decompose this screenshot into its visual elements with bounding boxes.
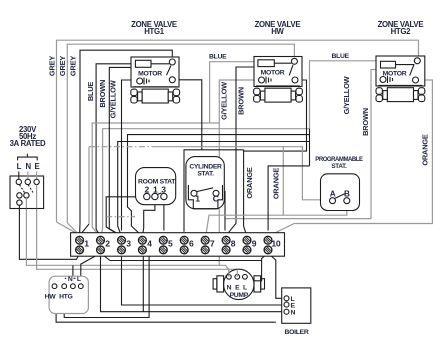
wire isolator N (grey neutral bus below strip) (26, 208, 229, 274)
svg-text:3: 3 (161, 185, 166, 195)
svg-text:MOTOR: MOTOR (383, 71, 407, 78)
wire room stat 1 to terminal 4 (143, 199, 155, 234)
svg-text:3: 3 (126, 239, 131, 249)
programmable stat box (321, 174, 360, 211)
label brown HTG2 (361, 108, 370, 136)
wire blue HW (grey) down to neutral bus (210, 62, 258, 123)
pump (213, 269, 264, 299)
label programmable stat (315, 157, 363, 198)
svg-text:G/YELLOW: G/YELLOW (342, 76, 351, 114)
zone valve HTG1 motor box (131, 57, 179, 87)
svg-text:2: 2 (105, 239, 110, 249)
svg-text:4: 4 (147, 239, 152, 249)
earth hatch HTG1 (144, 78, 149, 85)
isolator 230V box (10, 172, 44, 209)
svg-text:A: A (330, 189, 336, 198)
svg-text:BLUE: BLUE (86, 82, 95, 102)
svg-text:GREY: GREY (68, 56, 77, 76)
svg-text:N: N (26, 162, 32, 171)
svg-text:L: L (243, 285, 247, 292)
cylinder stat box (186, 157, 224, 209)
label orange HTG2 (420, 134, 429, 166)
wire dash-dot link terminal 1 to prog stat A (81, 147, 330, 234)
svg-text:N: N (291, 309, 296, 316)
wire brown HTG1 to terminal 3 (109, 67, 135, 235)
zone valve HW body (254, 86, 303, 102)
svg-text:GREY: GREY (47, 56, 56, 76)
wire orange drop mid (282, 146, 284, 216)
wire grey diagonals into terminal 1 (57, 222, 81, 234)
room stat box (136, 168, 176, 205)
svg-text:CYLINDER: CYLINDER (189, 164, 222, 171)
svg-text:B: B (344, 189, 350, 198)
wire link bus y150 terminal 6 (184, 150, 244, 232)
svg-text:BLUE: BLUE (209, 54, 227, 61)
wire room stat 2 to terminal 3 (106, 197, 144, 236)
label brown HTG1 (98, 80, 107, 108)
svg-text:2: 2 (145, 185, 150, 195)
svg-text:HTG: HTG (59, 294, 72, 301)
wire terminal 2 to boiler N (101, 253, 285, 312)
wire green-yellow HTG1 to terminal 3 (122, 80, 137, 231)
programmer HW HTG box (49, 276, 88, 313)
svg-text:N: N (227, 285, 232, 292)
label zone valve HTG1 (131, 20, 177, 36)
svg-text:ORANGE: ORANGE (420, 134, 429, 166)
label L N E (17, 162, 40, 171)
earth hatch HW (266, 77, 271, 84)
svg-text:L: L (77, 276, 81, 283)
svg-text:ORANGE: ORANGE (271, 168, 280, 200)
svg-text:6: 6 (189, 239, 194, 249)
label blue HW (209, 54, 227, 61)
label zone valve HW (255, 20, 301, 36)
terminal strip (71, 233, 285, 257)
svg-text:G/YELLOW: G/YELLOW (109, 80, 118, 118)
terminals 1-10 (76, 236, 272, 254)
wire grey neutral bus y123 to terminal 2 (92, 123, 219, 235)
wire dash-dot link segment 2 (106, 216, 135, 218)
wire orange HTG2 to terminal 10 (269, 80, 432, 236)
svg-text:HW: HW (45, 294, 57, 301)
svg-text:HTG2: HTG2 (391, 27, 412, 36)
svg-text:MOTOR: MOTOR (138, 71, 162, 78)
svg-text:8: 8 (231, 239, 236, 249)
wire terminal 3 to boiler E (122, 253, 285, 305)
label room stat (138, 179, 176, 195)
svg-text:5: 5 (168, 239, 173, 249)
wire programmer N to neutral bus (72, 265, 74, 284)
wire terminal 10 up to top bus (268, 166, 309, 231)
wire bus y134.6 to terminal 4 (128, 135, 310, 235)
svg-text:1: 1 (153, 185, 158, 195)
svg-text:G/YELLOW: G/YELLOW (219, 82, 228, 120)
label cylinder stat (189, 164, 222, 204)
label g/yellow HTG2 (342, 76, 351, 114)
zone valve HTG1 body (131, 87, 180, 103)
label blue HTG1 (86, 82, 95, 102)
svg-text:HTG1: HTG1 (144, 27, 165, 36)
svg-text:L: L (17, 162, 22, 171)
wire grey top bus to HW motor switch (67, 44, 294, 223)
label grey x3 (47, 56, 77, 76)
wire isolator E (grey earth bus below strip) (37, 208, 238, 274)
label HW HTG (45, 294, 73, 301)
label motor HW (261, 70, 285, 77)
label 230V 50Hz 3A RATED (10, 125, 46, 148)
svg-text:MOTOR: MOTOR (261, 70, 285, 77)
wire green-yellow HW to neutral bus (219, 80, 259, 265)
wire terminal 2 to programmer L (81, 253, 101, 284)
svg-text:N: N (68, 276, 73, 283)
label motor HTG2 (383, 71, 407, 78)
label pump N E L (227, 285, 249, 300)
wire bus y141.5 to terminal 3 (118, 142, 310, 235)
wire terminal 10 to pump L (247, 253, 268, 281)
wire isolator L to terminal 1 (19, 208, 79, 259)
zone valve HTG2 motor box (376, 56, 425, 86)
label brown HW (236, 87, 245, 115)
svg-text:10: 10 (271, 239, 280, 249)
bracket above L N E (18, 154, 38, 161)
wire cylinder stat C to terminal 8 (219, 192, 225, 231)
label g/yellow HTG1 (109, 80, 118, 118)
wire terminal 10 to boiler L (268, 253, 284, 298)
svg-text:7: 7 (210, 239, 215, 249)
svg-text:BOILER: BOILER (285, 329, 309, 336)
wire brown HTG2 to terminal 8 link (225, 70, 381, 219)
label terminal numbers (84, 239, 281, 249)
wire orange HW to terminal 9 (244, 80, 307, 235)
svg-text:C: C (213, 194, 219, 204)
label orange 1 (245, 167, 254, 199)
svg-text:1: 1 (195, 194, 200, 204)
wire grey top bus to HTG2 motor switch (57, 40, 419, 222)
wire orange HTG1 to terminal 7 (175, 80, 202, 150)
svg-text:9: 9 (252, 239, 257, 249)
svg-text:PUMP: PUMP (230, 292, 249, 299)
label g/yellow HW (219, 82, 228, 120)
label programmer N L (65, 276, 81, 283)
wire blue HTG2 (grey) via bus y128.7 to terminal 2 (102, 61, 381, 236)
svg-text:BROWN: BROWN (236, 87, 245, 115)
boiler box (282, 288, 311, 323)
label blue HTG2 (332, 53, 350, 60)
svg-text:GREY: GREY (58, 56, 67, 76)
label zone valve HTG2 (378, 20, 424, 36)
svg-text:BROWN: BROWN (98, 80, 107, 108)
svg-text:1: 1 (84, 239, 89, 249)
label boiler L E N (285, 296, 309, 336)
wire room stat 3 to terminal 5 (163, 199, 165, 230)
svg-text:3A RATED: 3A RATED (10, 139, 46, 148)
wire pump N E entries over pump (229, 269, 237, 277)
zone valve HTG2 body (376, 85, 425, 101)
zone valve HW motor box (254, 57, 302, 87)
label motor HTG1 (138, 71, 162, 78)
wire brown HW to terminal 8 (228, 67, 258, 234)
svg-text:BROWN: BROWN (361, 108, 370, 136)
svg-text:STAT.: STAT. (197, 171, 214, 178)
label orange 2 (271, 168, 280, 200)
earth hatch HTG2 (388, 76, 393, 83)
svg-text:HW: HW (271, 27, 284, 36)
svg-text:E: E (34, 162, 39, 171)
wire top bus to HTG1 motor switch (80, 50, 172, 223)
wire programmer HW output (56, 300, 276, 323)
wire terminal 2 link bus below strip (101, 253, 262, 260)
wire blue HTG1 (black) to terminal 2 (96, 64, 135, 236)
svg-text:STAT.: STAT. (331, 163, 347, 170)
svg-text:ORANGE: ORANGE (245, 167, 254, 199)
wire programmer HTG output (64, 255, 149, 318)
wire prog stat B (grey) (206, 204, 347, 236)
svg-text:BLUE: BLUE (332, 53, 350, 60)
